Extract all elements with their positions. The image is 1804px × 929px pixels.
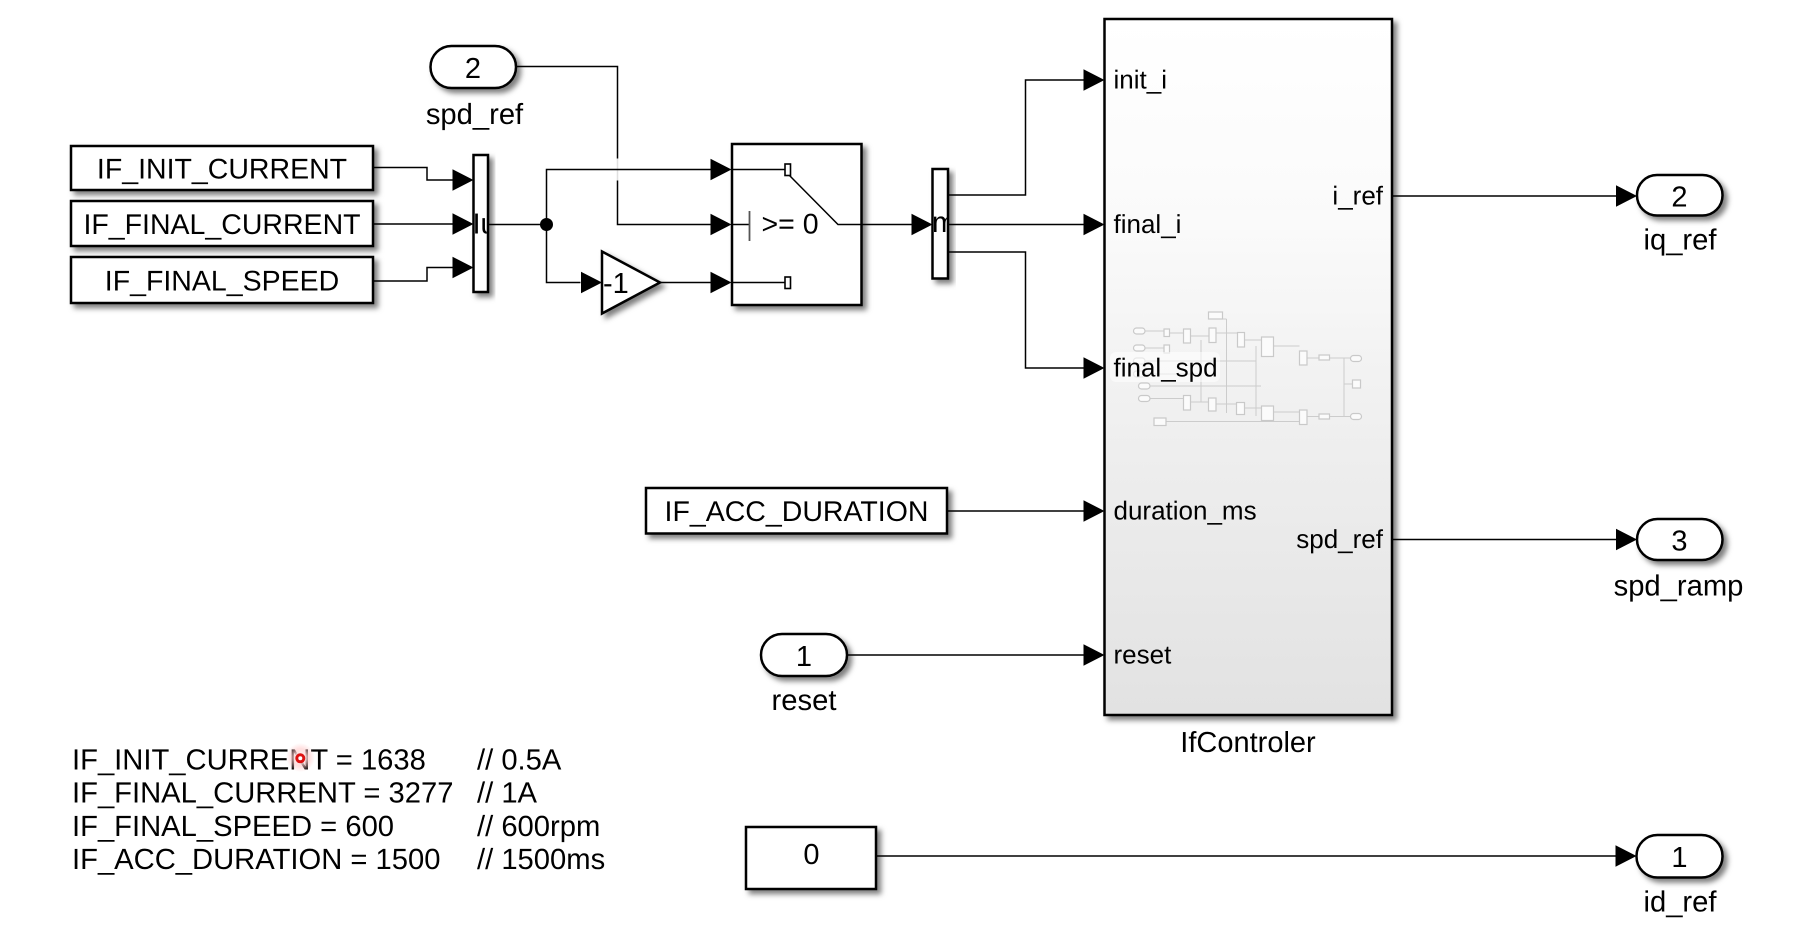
svg-text:i_ref: i_ref xyxy=(1332,180,1383,210)
wire reset port to reset input xyxy=(847,654,1084,656)
arrowhead into switch control xyxy=(711,214,732,235)
svg-text:-1: -1 xyxy=(603,268,629,300)
constant 0 xyxy=(746,827,876,889)
svg-text:reset: reset xyxy=(772,685,837,717)
wire IF_FINAL_CURRENT to mux input 2 xyxy=(373,223,453,225)
subsystem content preview xyxy=(1134,312,1362,426)
switch block (criteria >= 0) xyxy=(732,144,862,305)
subsystem IfControler xyxy=(1105,19,1393,715)
svg-text:m: m xyxy=(932,207,956,239)
input port 2 spd_ref xyxy=(431,46,517,88)
svg-text:IF_ACC_DURATION: IF_ACC_DURATION xyxy=(665,496,929,528)
constant IF_INIT_CURRENT xyxy=(71,146,373,190)
svg-text:IF_ACC_DURATION = 1500: IF_ACC_DURATION = 1500 xyxy=(72,844,440,876)
node junction xyxy=(540,218,553,231)
svg-text:IF_FINAL_CURRENT = 3277: IF_FINAL_CURRENT = 3277 xyxy=(72,778,453,810)
wire IF_INIT_CURRENT to mux input 1 xyxy=(373,168,453,181)
svg-text:final_spd: final_spd xyxy=(1114,352,1218,382)
demux block xyxy=(932,169,956,279)
svg-text:// 1A: // 1A xyxy=(477,778,538,810)
annotation comments xyxy=(477,744,605,876)
svg-text:2: 2 xyxy=(465,53,481,85)
wire switch output to demux xyxy=(862,224,912,226)
wire i_ref to output port 2 xyxy=(1392,195,1616,197)
wire mux output to junction xyxy=(488,224,547,226)
wire demux out2 to final_i xyxy=(948,224,1084,226)
wire junction down to gain input xyxy=(547,225,581,283)
svg-text:init_i: init_i xyxy=(1114,64,1167,94)
gain -1 xyxy=(602,252,660,314)
wire demux out1 to init_i xyxy=(948,80,1084,195)
mux block xyxy=(473,155,497,292)
svg-text:final_i: final_i xyxy=(1114,209,1182,239)
svg-text:IfControler: IfControler xyxy=(1180,727,1316,759)
svg-text:spd_ref: spd_ref xyxy=(1296,524,1383,554)
svg-text:// 1500ms: // 1500ms xyxy=(477,844,605,876)
output port 2 iq_ref xyxy=(1637,175,1723,216)
wire IF_ACC_DURATION to duration_ms xyxy=(947,510,1084,512)
wire gain output to switch input 3 xyxy=(660,282,711,284)
svg-text:IF_FINAL_SPEED = 600: IF_FINAL_SPEED = 600 xyxy=(72,811,394,843)
svg-text:2: 2 xyxy=(1671,182,1687,214)
constant IF_ACC_DURATION xyxy=(646,488,947,534)
svg-text:spd_ramp: spd_ramp xyxy=(1614,571,1744,603)
output port 1 id_ref xyxy=(1637,835,1723,878)
wire demux out3 to final_spd xyxy=(948,252,1084,368)
svg-text:3: 3 xyxy=(1671,526,1687,558)
svg-text:IF_INIT_CURRENT: IF_INIT_CURRENT xyxy=(97,153,347,185)
svg-text:>= 0: >= 0 xyxy=(762,209,819,241)
wire spd_ref to output port 3 xyxy=(1392,539,1616,541)
svg-text:id_ref: id_ref xyxy=(1643,887,1717,919)
svg-text:1: 1 xyxy=(1671,842,1687,874)
wire spd_ref port to switch control input xyxy=(517,67,712,225)
svg-text:spd_ref: spd_ref xyxy=(426,99,524,131)
constant IF_FINAL_CURRENT xyxy=(71,201,373,246)
subsystem port labels xyxy=(1114,64,1182,239)
input port 1 reset xyxy=(761,634,847,676)
wire junction up to switch input 1 xyxy=(547,170,711,225)
svg-text:0: 0 xyxy=(803,839,819,871)
svg-text:duration_ms: duration_ms xyxy=(1114,495,1257,525)
svg-text:iq_ref: iq_ref xyxy=(1643,225,1717,257)
svg-text:IF_FINAL_CURRENT: IF_FINAL_CURRENT xyxy=(83,209,360,241)
constant IF_FINAL_SPEED xyxy=(71,257,373,303)
output port 3 spd_ramp xyxy=(1637,519,1723,560)
wire IF_FINAL_SPEED to mux input 3 xyxy=(373,268,453,282)
svg-text:// 0.5A: // 0.5A xyxy=(477,744,562,776)
wire constant 0 to output port 1 xyxy=(877,855,1616,857)
svg-text:IF_INIT_CURRENT = 1638: IF_INIT_CURRENT = 1638 xyxy=(72,744,426,776)
svg-text:IF_FINAL_SPEED: IF_FINAL_SPEED xyxy=(105,265,339,297)
annotation parameter definitions xyxy=(72,744,453,876)
cursor highlight (red click indicator) xyxy=(286,743,315,772)
svg-text:1: 1 xyxy=(796,641,812,673)
svg-text:reset: reset xyxy=(1114,639,1173,669)
svg-text:// 600rpm: // 600rpm xyxy=(477,811,600,843)
